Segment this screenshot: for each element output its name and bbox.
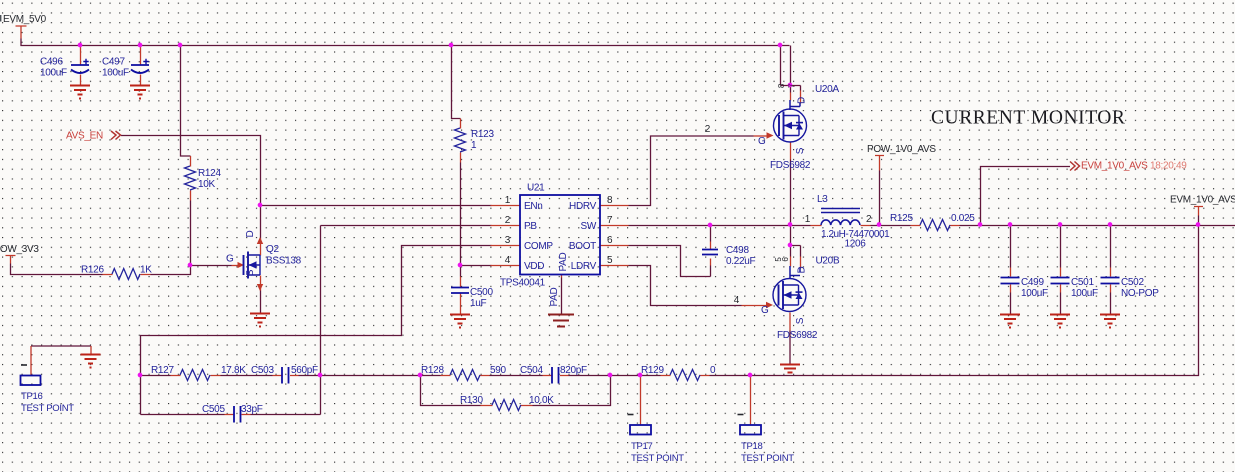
svg-text:4: 4: [734, 295, 740, 306]
svg-text:10K: 10K: [198, 179, 216, 190]
svg-text:D: D: [797, 97, 808, 104]
svg-text:TEST POINT: TEST POINT: [631, 453, 684, 464]
svg-text:TP16: TP16: [21, 391, 43, 402]
svg-text:S: S: [245, 269, 256, 276]
svg-text:FDS6982: FDS6982: [777, 330, 818, 341]
svg-text:18;20;49: 18;20;49: [1150, 161, 1187, 172]
svg-text:1uF: 1uF: [470, 298, 487, 309]
svg-text:1K: 1K: [140, 265, 152, 276]
svg-text:4: 4: [505, 255, 511, 266]
svg-text:NO-POP: NO-POP: [1121, 288, 1159, 299]
svg-text:R127: R127: [151, 365, 174, 376]
svg-text:VDD: VDD: [524, 261, 544, 272]
svg-text:U21: U21: [527, 183, 545, 194]
svg-text:D: D: [245, 230, 256, 237]
svg-text:TP18: TP18: [741, 441, 763, 452]
svg-text:0: 0: [710, 365, 716, 376]
svg-text:17.8K: 17.8K: [221, 365, 246, 376]
svg-text:ENn: ENn: [524, 201, 543, 212]
svg-text:G: G: [761, 305, 769, 316]
svg-text:R126: R126: [81, 265, 104, 276]
svg-text:C502: C502: [1121, 277, 1144, 288]
svg-text:U20B: U20B: [816, 256, 840, 267]
svg-text:EVM_1V0_AVS: EVM_1V0_AVS: [1170, 195, 1235, 206]
svg-text:BSS138: BSS138: [266, 256, 302, 267]
svg-text:TEST POINT: TEST POINT: [21, 403, 74, 414]
svg-text:R129: R129: [641, 365, 664, 376]
svg-text:0.025: 0.025: [951, 213, 975, 224]
svg-text:D: D: [797, 266, 808, 273]
svg-text:820pF: 820pF: [560, 365, 587, 376]
svg-text:POW_3V3: POW_3V3: [0, 244, 39, 255]
svg-text:R128: R128: [421, 365, 444, 376]
svg-text:5: 5: [607, 255, 613, 266]
svg-text:R125: R125: [890, 213, 913, 224]
svg-text:1: 1: [505, 195, 511, 206]
svg-text:C498: C498: [726, 245, 749, 256]
svg-text:Q2: Q2: [266, 244, 279, 255]
svg-text:POW_1V0_AVS: POW_1V0_AVS: [867, 144, 936, 155]
svg-text:C497: C497: [102, 57, 125, 68]
svg-text:1: 1: [805, 214, 811, 225]
svg-text:33pF: 33pF: [241, 404, 263, 415]
svg-text:C503: C503: [251, 365, 274, 376]
svg-text:C500: C500: [470, 287, 493, 298]
svg-text:C504: C504: [520, 365, 543, 376]
svg-text:6: 6: [607, 235, 613, 246]
svg-text:C499: C499: [1021, 277, 1044, 288]
svg-text:0.22uF: 0.22uF: [726, 256, 756, 267]
svg-text:EVM_5V0: EVM_5V0: [3, 14, 47, 25]
svg-text:SW: SW: [580, 221, 596, 232]
svg-text:100uF: 100uF: [1071, 288, 1098, 299]
svg-text:BOOT: BOOT: [569, 241, 596, 252]
svg-text:TP17: TP17: [631, 441, 653, 452]
svg-text:G: G: [226, 254, 234, 265]
svg-text:FDS6982: FDS6982: [770, 160, 811, 171]
svg-text:U20A: U20A: [815, 84, 839, 95]
svg-text:C496: C496: [40, 57, 63, 68]
svg-text:1: 1: [471, 140, 477, 151]
svg-text:2: 2: [505, 215, 511, 226]
svg-text:G: G: [758, 136, 766, 147]
svg-text:100uF: 100uF: [1021, 288, 1048, 299]
svg-text:1206: 1206: [844, 239, 866, 250]
svg-text:560pF: 560pF: [291, 365, 318, 376]
svg-text:S: S: [795, 317, 806, 324]
svg-text:R124: R124: [198, 168, 221, 179]
svg-text:10.0K: 10.0K: [529, 395, 554, 406]
svg-text:HDRV: HDRV: [569, 201, 597, 212]
svg-text:AVS_EN: AVS_EN: [66, 131, 103, 142]
svg-text:8: 8: [607, 195, 613, 206]
svg-text:PAD: PAD: [549, 287, 560, 306]
svg-text:7: 7: [607, 215, 613, 226]
svg-text:S: S: [795, 147, 806, 154]
svg-text:L3: L3: [817, 194, 828, 205]
svg-text:R123: R123: [471, 129, 494, 140]
svg-text:PB: PB: [524, 221, 537, 232]
svg-text:EVM_1V0_AVS: EVM_1V0_AVS: [1081, 161, 1148, 172]
svg-text:2: 2: [705, 124, 711, 135]
svg-text:C501: C501: [1071, 277, 1094, 288]
svg-text:TPS40041: TPS40041: [500, 278, 546, 289]
svg-text:100uF: 100uF: [40, 68, 67, 79]
svg-text:PAD: PAD: [558, 252, 569, 271]
svg-text:590: 590: [490, 365, 507, 376]
svg-text:CURRENT MONITOR: CURRENT MONITOR: [931, 108, 1125, 129]
svg-text:TEST POINT: TEST POINT: [741, 453, 794, 464]
svg-text:COMP: COMP: [524, 241, 553, 252]
svg-text:C505: C505: [202, 404, 225, 415]
svg-text:3: 3: [505, 235, 511, 246]
svg-text:100uF: 100uF: [102, 68, 129, 79]
svg-text:R130: R130: [460, 395, 483, 406]
svg-text:LDRV: LDRV: [571, 261, 597, 272]
svg-text:2: 2: [866, 214, 872, 225]
